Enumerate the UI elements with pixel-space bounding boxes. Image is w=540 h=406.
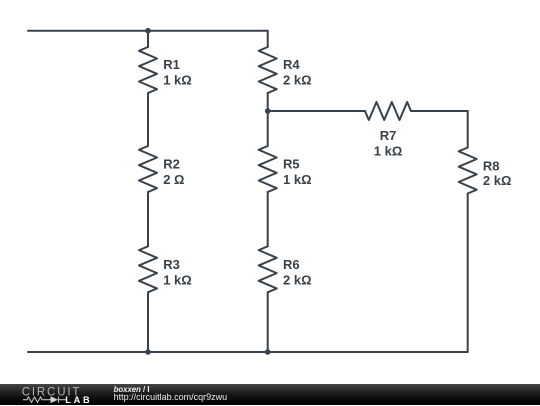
wire R6 bottom lead — [267, 292, 269, 352]
footer bar — [0, 384, 540, 405]
resistor R3 — [139, 246, 157, 292]
svg-text:R8: R8 — [483, 158, 500, 173]
resistor R4 — [259, 47, 277, 93]
wire R8 bottom lead — [467, 194, 469, 353]
svg-text:LAB: LAB — [65, 394, 92, 404]
svg-text:1 kΩ: 1 kΩ — [374, 143, 403, 158]
node junction bottom R3 — [145, 349, 151, 355]
svg-text:1 kΩ: 1 kΩ — [163, 73, 192, 88]
resistor R7 — [365, 102, 411, 120]
wire junction to R5 — [267, 111, 269, 146]
svg-text:1 kΩ: 1 kΩ — [283, 172, 312, 187]
svg-text:1 kΩ: 1 kΩ — [163, 273, 192, 288]
attribution line 2 — [114, 392, 228, 402]
wire R1 top lead — [147, 31, 149, 47]
resistor R5 — [259, 146, 277, 192]
resistor R6 — [259, 246, 277, 292]
wire middle net junction to R7 — [268, 110, 365, 112]
svg-text:R1: R1 — [163, 57, 180, 72]
wire bottom net — [28, 351, 468, 353]
svg-text:R7: R7 — [380, 128, 397, 143]
svg-text:R6: R6 — [283, 257, 300, 272]
svg-text:R3: R3 — [163, 257, 180, 272]
svg-text:2 kΩ: 2 kΩ — [283, 73, 312, 88]
wire R4 to middle junction — [267, 93, 269, 111]
svg-text:R2: R2 — [163, 156, 180, 171]
CircuitLab logo — [0, 384, 540, 406]
wire R5 to R6 — [267, 192, 269, 246]
node junction middle R4/R5/R7 — [265, 108, 271, 114]
node junction bottom R6 — [265, 349, 271, 355]
wire R7 to right column — [411, 110, 468, 112]
wire right column corner down to R8 — [467, 111, 469, 148]
wire top net from left stub to R4 column — [28, 30, 268, 32]
svg-text:2 Ω: 2 Ω — [163, 172, 184, 187]
wire R2 to R3 — [147, 192, 149, 246]
resistor R8 — [459, 148, 477, 194]
resistor R2 — [139, 146, 157, 192]
svg-text:R4: R4 — [283, 57, 300, 72]
wire R1 to R2 — [147, 93, 149, 146]
node junction top R1 — [145, 28, 151, 34]
svg-text:R5: R5 — [283, 156, 300, 171]
wire R3 bottom lead — [147, 292, 149, 352]
attribution line 1 — [114, 385, 150, 394]
resistor R1 — [139, 47, 157, 93]
svg-text:2 kΩ: 2 kΩ — [283, 273, 312, 288]
wire R4 column top corner down — [267, 31, 269, 47]
svg-text:2 kΩ: 2 kΩ — [483, 173, 512, 188]
